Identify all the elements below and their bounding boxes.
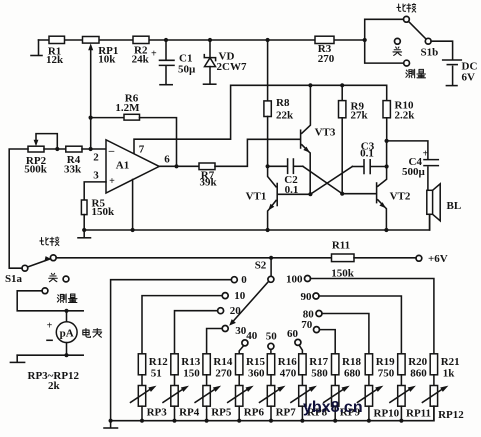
svg-text:90: 90	[301, 291, 313, 303]
resistor R9	[339, 85, 369, 193]
node: output junction	[174, 164, 178, 168]
svg-text:100: 100	[286, 273, 303, 285]
wire R19 to RP10	[368, 375, 370, 386]
svg-text:+: +	[109, 176, 115, 187]
svg-text:12k: 12k	[46, 54, 64, 66]
node: rail / VT3 collector	[308, 83, 312, 87]
wire: emitter rail y=230	[84, 214, 429, 230]
svg-text:RP3: RP3	[147, 406, 168, 418]
wire R18 to RP9	[334, 375, 336, 386]
potentiometer RP4	[163, 386, 200, 419]
transistor VT1	[246, 166, 311, 230]
wire: measure contact to meter top	[17, 291, 83, 311]
wire RP7 to bus	[269, 406, 273, 423]
svg-text:150k: 150k	[92, 206, 116, 218]
svg-text:VT2: VT2	[390, 191, 411, 203]
svg-text:RP5: RP5	[211, 406, 232, 418]
svg-text:+: +	[47, 321, 53, 332]
label measure (bottom)	[57, 294, 77, 303]
wire RP10 to bus	[367, 406, 371, 423]
svg-text:270: 270	[318, 53, 335, 65]
node: pin2 junction	[89, 147, 93, 151]
wire: R7 to VT3 base	[215, 139, 299, 166]
wire R4 to inverting input	[82, 148, 106, 150]
wire: supply rail y=85.3 with pin7 drop	[134, 85, 387, 153]
wire: meter bottom	[17, 354, 83, 356]
svg-text:1.2M: 1.2M	[115, 102, 140, 114]
node: bus / 0 wire	[109, 419, 113, 423]
svg-text:750: 750	[378, 367, 395, 379]
wire: pin3 to R5	[84, 182, 106, 200]
svg-text:RP7: RP7	[276, 406, 297, 418]
svg-text:R14: R14	[213, 356, 232, 368]
svg-text:R13: R13	[181, 356, 200, 368]
terminal +6V	[416, 253, 448, 265]
ground terminal below VD	[204, 83, 216, 85]
node: meter bottom junction	[64, 353, 68, 357]
ground terminal left of meter bottom wire	[10, 355, 24, 362]
resistor R14	[203, 354, 233, 380]
node: junction top rail / C1	[164, 38, 168, 42]
resistor R20	[398, 354, 428, 380]
wire: RP2 left lead down to S1a pole	[9, 149, 28, 268]
transistor VT3	[301, 85, 336, 194]
node: R6 left junction	[89, 116, 93, 120]
svg-text:R15: R15	[246, 356, 265, 368]
svg-text:22k: 22k	[276, 110, 294, 122]
wire RP12 to bus	[433, 406, 435, 421]
resistor R7	[199, 163, 217, 189]
wire R16 to RP7	[270, 375, 272, 386]
node: VT1 base / VT3 emitter junction	[308, 192, 312, 196]
switch S1a off contact	[63, 276, 69, 282]
node: R9 bottom / VT2 base junction	[340, 192, 344, 196]
S2 contact 10	[142, 290, 246, 354]
resistor R12	[138, 354, 168, 380]
svg-text:S1b: S1b	[421, 46, 439, 58]
potentiometer RP10	[357, 386, 399, 420]
wire RP9 to bus	[333, 406, 337, 423]
resistor R3	[315, 36, 335, 65]
switch S1b measure contact	[404, 60, 410, 66]
svg-text:2: 2	[93, 151, 99, 163]
svg-text:0.1: 0.1	[360, 148, 374, 160]
svg-text:60: 60	[287, 328, 299, 340]
S2 contact 100	[286, 273, 434, 354]
wire R13 to RP4	[174, 375, 176, 386]
switch S1b pole and arm	[409, 22, 439, 59]
svg-text:40: 40	[246, 330, 258, 342]
wire: cross-couple C2 right to VT2 base	[303, 166, 342, 193]
resistor R21	[430, 354, 459, 380]
svg-text:R12: R12	[149, 356, 168, 368]
svg-text:R18: R18	[342, 356, 361, 368]
svg-text:10k: 10k	[98, 54, 116, 66]
svg-text:80: 80	[303, 308, 315, 320]
S2 contact 20	[175, 305, 242, 354]
svg-text:50: 50	[266, 331, 278, 343]
svg-text:270: 270	[215, 367, 232, 379]
node: junction R3 right / compare-measure branch	[363, 38, 367, 42]
resistor R15	[236, 354, 266, 380]
switch S2 pole and arm	[229, 258, 274, 326]
S2 contact 30	[207, 325, 247, 354]
wire RP4 to bus	[172, 406, 176, 423]
svg-text:2k: 2k	[48, 380, 61, 392]
switch S1b off contact	[395, 38, 401, 44]
svg-text:10: 10	[234, 290, 246, 302]
svg-text:150: 150	[183, 367, 200, 379]
svg-text:R19: R19	[376, 356, 395, 368]
resistor R11	[331, 240, 416, 280]
svg-text:27k: 27k	[351, 109, 369, 121]
svg-text:51: 51	[151, 367, 162, 379]
svg-text:50µ: 50µ	[178, 64, 196, 76]
S2 contact 0	[111, 274, 248, 421]
resistor R16	[267, 354, 297, 380]
resistor R1	[46, 36, 64, 66]
label meter (dianbiao)	[83, 328, 102, 337]
svg-text:RP10: RP10	[374, 407, 400, 419]
svg-text:R11: R11	[332, 240, 350, 252]
S2 contact 50	[266, 331, 278, 354]
node: R10 bottom / VT2 collector / C4 branch	[385, 139, 389, 143]
switch S1a pole and arm	[5, 256, 51, 285]
label compare (bottom)	[40, 237, 59, 245]
wire R15 to RP6	[238, 375, 240, 386]
potentiometer RP2	[24, 134, 57, 176]
switch S1a measure contact	[42, 288, 48, 294]
potentiometer RP7	[260, 386, 297, 419]
node: junction top rail / R8 column	[266, 38, 270, 42]
S2 contact 90	[301, 291, 402, 354]
wire RP11 to bus	[399, 406, 403, 423]
svg-text:R8: R8	[276, 97, 290, 109]
potentiometer RP8	[291, 386, 328, 419]
svg-text:S1a: S1a	[5, 273, 23, 285]
svg-text:6: 6	[164, 153, 170, 165]
svg-text:S2: S2	[255, 259, 267, 271]
svg-text:RP11: RP11	[406, 407, 431, 419]
wire: cross-couple C3 left to VT1 base	[310, 167, 352, 195]
watermark ybx8.cn	[303, 399, 363, 416]
svg-text:470: 470	[280, 367, 297, 379]
svg-text:RP4: RP4	[179, 406, 200, 418]
svg-text:ybx8.cn: ybx8.cn	[303, 399, 363, 416]
node: S2 feed junction	[269, 256, 273, 260]
ground terminal below C1	[160, 84, 172, 86]
wire: top supply rail y=40	[39, 39, 365, 41]
svg-text:2CW7: 2CW7	[217, 61, 247, 73]
meter uA	[47, 311, 77, 355]
svg-text:680: 680	[344, 367, 361, 379]
zener diode VD 2CW7	[204, 40, 247, 83]
svg-text:33k: 33k	[64, 164, 82, 176]
svg-text:RP12: RP12	[438, 409, 464, 421]
svg-text:20: 20	[230, 305, 242, 317]
capacitor C4 500u electrolytic	[387, 141, 439, 190]
node: R5 / rail	[82, 228, 86, 232]
svg-text:150k: 150k	[331, 267, 355, 279]
label off (top)	[393, 47, 402, 55]
svg-text:0: 0	[241, 274, 247, 286]
potentiometer RP6	[228, 386, 265, 419]
wire RP2 to R4	[44, 148, 66, 150]
capacitor C1 50u electrolytic	[151, 40, 196, 84]
svg-text:39k: 39k	[199, 177, 217, 189]
wire: bottom bus	[111, 406, 434, 421]
resistor R17	[299, 354, 329, 380]
potentiometer RP9	[324, 386, 361, 419]
svg-text:580: 580	[311, 367, 328, 379]
node: meter top junction	[64, 309, 68, 313]
node: rail / R9	[340, 83, 344, 87]
ground terminal below R5	[78, 230, 91, 238]
svg-text:A1: A1	[116, 159, 129, 171]
potentiometer RP3	[131, 386, 168, 419]
svg-text:R20: R20	[408, 356, 427, 368]
wire RP6 to bus	[237, 406, 241, 423]
svg-text:BL: BL	[447, 200, 462, 212]
capacitor C2 0.1	[268, 159, 303, 196]
svg-text:+6V: +6V	[428, 253, 448, 265]
wire: pin4 down to mid rail	[132, 180, 134, 231]
resistor R5	[81, 197, 115, 230]
switch S1b compare contact	[404, 16, 410, 22]
wire R17 to RP8	[301, 375, 303, 386]
resistor R18	[332, 354, 362, 380]
svg-text:1k: 1k	[443, 367, 456, 379]
wire RP3 to bus	[140, 406, 144, 423]
node: junction top rail / VD	[208, 38, 212, 42]
svg-text:R17: R17	[309, 356, 328, 368]
resistor R13	[171, 354, 201, 380]
svg-text:+: +	[151, 49, 157, 60]
node: VT1 emitter / rail	[266, 228, 270, 232]
battery DC 6V	[431, 41, 477, 84]
S2 contact 80	[303, 308, 369, 354]
svg-text:VT3: VT3	[315, 127, 336, 139]
svg-text:VT1: VT1	[246, 191, 267, 203]
wire: output to R7	[159, 165, 199, 167]
resistor R19	[365, 354, 395, 380]
node: C3 right / VT2 collector	[385, 164, 389, 168]
svg-text:RP6: RP6	[244, 406, 265, 418]
S2 contact 60	[287, 328, 302, 354]
node: pin4 / rail	[131, 228, 135, 232]
S2 contact 70	[301, 319, 335, 354]
potentiometer RP11	[390, 386, 431, 420]
resistor R10	[383, 100, 415, 141]
svg-text:360: 360	[248, 367, 265, 379]
label off (bottom)	[49, 273, 58, 281]
ground terminal below bus	[104, 421, 118, 428]
label measure (top)	[406, 69, 426, 78]
S2 contact 40	[239, 330, 258, 354]
ground terminal at left of R1	[31, 40, 42, 56]
battery negative terminal bar	[446, 85, 457, 87]
svg-text:R16: R16	[278, 356, 297, 368]
svg-text:24k: 24k	[132, 53, 150, 65]
svg-text:860: 860	[410, 367, 427, 379]
svg-text:500µ: 500µ	[402, 166, 426, 178]
transistor VT2	[342, 141, 411, 230]
wire R14 to RP5	[206, 375, 208, 386]
label RP3~RP12 2k	[28, 370, 80, 392]
node: R8 bottom / C2 / VT1 collector	[266, 164, 270, 168]
svg-text:3: 3	[93, 169, 99, 181]
label compare (top)	[397, 4, 416, 12]
potentiometer RP12	[422, 386, 464, 422]
svg-text:6V: 6V	[462, 71, 476, 83]
op-amp A1	[93, 140, 170, 193]
svg-text:–: –	[108, 145, 115, 157]
wire RP8 to bus	[300, 406, 304, 423]
potentiometer RP1	[83, 37, 119, 150]
svg-text:2.2k: 2.2k	[395, 109, 416, 121]
svg-text:500k: 500k	[24, 164, 48, 176]
svg-text:30: 30	[235, 325, 247, 337]
wire R12 to RP3	[141, 375, 143, 386]
speaker BL	[427, 184, 461, 230]
wire: branch up to compare contact	[365, 19, 404, 40]
svg-text:R21: R21	[441, 356, 460, 368]
svg-text:70: 70	[301, 319, 313, 331]
svg-text:7: 7	[139, 143, 145, 155]
resistor R2	[132, 36, 150, 65]
wire RP5 to bus	[205, 406, 209, 423]
switch S1a compare contact + wire to R11	[50, 255, 331, 261]
resistor R6 feedback	[91, 92, 177, 166]
svg-text:+: +	[423, 149, 429, 160]
capacitor C3 0.1	[352, 140, 386, 173]
wire: branch down to measure contact	[365, 40, 404, 63]
node: RP2/R4 junction	[55, 147, 59, 151]
resistor R4	[64, 146, 82, 175]
svg-text:pA: pA	[60, 327, 74, 339]
wire R21 to RP12	[433, 375, 435, 386]
potentiometer RP5	[195, 386, 232, 419]
wire R20 to RP11	[400, 375, 402, 386]
node: VT2 emitter / rail	[384, 228, 388, 232]
resistor R8	[264, 40, 294, 166]
